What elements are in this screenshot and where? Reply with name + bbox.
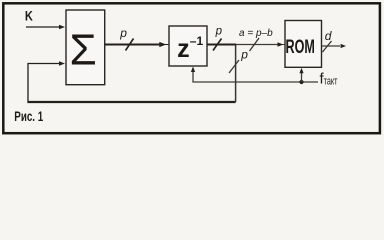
svg-text:Рис. 1: Рис. 1 — [14, 108, 43, 124]
svg-text:p: p — [215, 26, 223, 38]
svg-text:a = p–b: a = p–b — [239, 28, 273, 39]
svg-text:p: p — [240, 48, 248, 62]
svg-text:Σ: Σ — [70, 26, 97, 75]
svg-text:K: K — [25, 9, 33, 24]
svg-text:такт: такт — [324, 75, 338, 87]
svg-text:ROM: ROM — [286, 36, 315, 57]
svg-text:z: z — [177, 35, 190, 63]
svg-text:d: d — [325, 29, 332, 43]
svg-text:p: p — [119, 26, 127, 40]
svg-text:–1: –1 — [190, 34, 204, 48]
